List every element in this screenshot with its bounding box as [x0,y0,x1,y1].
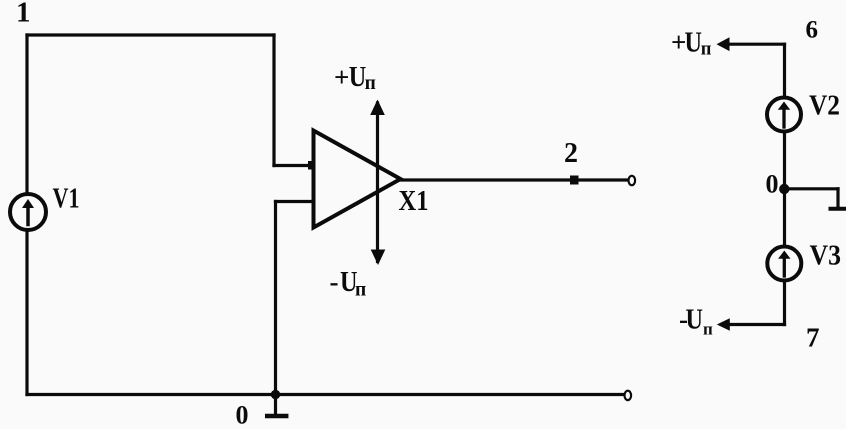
voltage source V2 [767,98,801,132]
voltage source V1 [10,194,46,230]
wire: op-amp output [401,178,629,181]
wire: left bus vertical (node 1 down to ground bus) [25,35,28,395]
svg-text:U: U [685,27,703,59]
svg-text:6: 6 [806,17,819,44]
label -Un (supply source) [679,304,713,339]
svg-text:0: 0 [766,170,779,199]
svg-text:V3: V3 [810,240,842,272]
arrowhead of +Un feed [717,37,730,51]
junction node 0 [271,390,280,399]
svg-text:0: 0 [236,401,249,429]
wire: branch down to noninverting input [272,35,275,166]
svg-text:п: п [701,40,712,60]
svg-text:п: п [355,280,366,301]
svg-text:+: + [334,62,349,92]
junction node 2 [570,176,579,185]
wire: noninverting input horizontal [274,164,313,167]
wire: node 0 to ground (supply) [784,189,838,207]
svg-text:7: 7 [806,323,820,353]
arrowhead up (+Un supply) [370,100,385,116]
arrowhead down (-Un supply) [371,250,386,266]
wire: top horizontal from node 1 [27,33,274,36]
svg-text:1: 1 [16,0,31,29]
wire: -Un feed horizontal [727,323,785,326]
svg-text:-: - [330,267,339,297]
svg-text:2: 2 [564,137,578,169]
ground symbol at node 0 [267,395,286,417]
arrowhead of -Un feed [717,318,730,330]
wire: +Un feed horizontal [727,43,785,46]
op-amp X1 body [314,131,401,228]
output terminal node 2 [629,176,636,185]
svg-text:U: U [686,304,704,336]
svg-text:V1: V1 [53,184,80,215]
voltage source V3 [767,247,801,281]
svg-text:п: п [703,320,713,339]
label -Un [330,266,367,301]
junction at op-amp + input [308,161,320,170]
svg-text:V2: V2 [809,90,840,122]
terminal on ground bus [625,391,632,400]
wire: ground bus horizontal [27,393,625,396]
wire: inverting input horizontal [276,200,314,203]
label +Un (supply source) [671,27,712,60]
junction node 0 (supply) [779,184,789,194]
svg-text:X1: X1 [399,186,429,217]
svg-text:п: п [365,73,376,94]
wire: vertical from ground bus to inverting input [274,202,277,395]
wire: supply rail vertical [783,44,786,324]
ground symbol (supply) [831,207,845,211]
supply rail line through op-amp [376,103,379,262]
label +Un [334,61,376,94]
